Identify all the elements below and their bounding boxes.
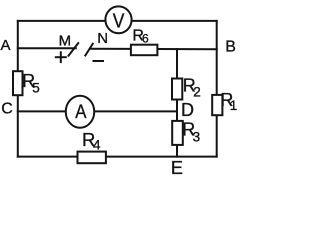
wire left vertical A-C: [17, 21, 19, 157]
resistor R5 box: [13, 71, 23, 95]
svg-text:E: E: [171, 158, 183, 178]
switch contact N blade: [85, 44, 93, 56]
resistor R4 box: [78, 152, 106, 164]
svg-text:V: V: [113, 10, 125, 32]
switch contact M blade: [69, 43, 79, 56]
minus polarity mark: [94, 60, 104, 62]
ammeter A circle: [66, 96, 95, 128]
svg-text:C: C: [1, 101, 13, 118]
svg-text:R3: R3: [182, 119, 200, 144]
resistor R6 box: [131, 45, 158, 56]
resistor R3 box: [172, 121, 183, 145]
svg-text:D: D: [181, 100, 194, 120]
wire middle branch R2-R3: [176, 49, 178, 157]
wire row C to D: [18, 110, 177, 112]
svg-text:R1: R1: [220, 90, 237, 113]
svg-text:R2: R2: [183, 76, 201, 100]
svg-text:A: A: [75, 102, 86, 123]
wire bottom: [18, 156, 217, 158]
svg-text:R6: R6: [132, 28, 149, 46]
svg-text:B: B: [225, 38, 236, 55]
svg-text:N: N: [97, 30, 108, 47]
wire right vertical B branch: [216, 21, 218, 157]
wire row A to switch M: [18, 47, 76, 49]
resistor R1 box: [212, 95, 222, 115]
svg-text:A: A: [1, 37, 11, 54]
wire row N to B: [91, 48, 217, 51]
plus polarity mark: [56, 56, 66, 58]
svg-text:M: M: [59, 32, 72, 49]
resistor R2 box: [172, 79, 182, 100]
svg-text:R5: R5: [22, 71, 40, 95]
wire top A-to-B: [18, 20, 217, 22]
svg-text:R4: R4: [82, 129, 101, 153]
voltmeter V circle: [105, 6, 131, 33]
